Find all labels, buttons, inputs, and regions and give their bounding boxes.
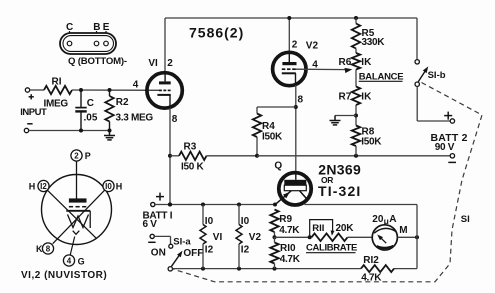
svg-text:R7: R7 <box>339 91 352 102</box>
svg-text:4: 4 <box>133 80 139 91</box>
svg-text:G: G <box>78 256 85 266</box>
svg-text:VI: VI <box>213 232 223 243</box>
svg-text:4.7K: 4.7K <box>279 225 300 236</box>
svg-text:Q: Q <box>274 160 282 171</box>
svg-text:RI: RI <box>52 77 62 88</box>
svg-text:4.7K: 4.7K <box>361 273 382 284</box>
svg-text:C: C <box>87 98 94 109</box>
svg-text:I2: I2 <box>205 245 214 256</box>
svg-text:R3: R3 <box>184 141 197 152</box>
svg-text:IK: IK <box>361 57 372 68</box>
svg-text:μ: μ <box>384 216 389 226</box>
svg-text:CALIBRATE: CALIBRATE <box>306 243 357 254</box>
svg-text:8: 8 <box>298 94 304 105</box>
svg-text:A: A <box>389 214 396 225</box>
svg-text:2: 2 <box>292 40 298 51</box>
svg-text:4: 4 <box>67 256 72 265</box>
svg-text:SI-a: SI-a <box>173 236 191 247</box>
svg-text:R4: R4 <box>262 121 275 132</box>
svg-text:I0: I0 <box>241 216 250 227</box>
svg-text:I50K: I50K <box>361 137 382 148</box>
svg-text:E: E <box>103 22 110 33</box>
svg-text:4.7K: 4.7K <box>280 254 301 265</box>
svg-text:C: C <box>66 22 73 33</box>
svg-text:V2: V2 <box>306 41 319 52</box>
svg-text:SI-b: SI-b <box>428 70 446 81</box>
svg-text:90 V: 90 V <box>435 142 455 153</box>
svg-text:R6: R6 <box>339 57 352 68</box>
svg-text:IK: IK <box>361 91 372 102</box>
svg-text:IMEG: IMEG <box>44 98 69 109</box>
svg-text:RI0: RI0 <box>280 243 296 254</box>
svg-text:VI,2 (NUVISTOR): VI,2 (NUVISTOR) <box>21 270 107 281</box>
svg-text:TI-32I: TI-32I <box>318 183 361 199</box>
svg-text:I2: I2 <box>40 182 47 191</box>
svg-text:VI: VI <box>148 58 158 69</box>
svg-text:Q (BOTTOM)-: Q (BOTTOM)- <box>68 56 127 67</box>
svg-text:330K: 330K <box>362 37 386 48</box>
svg-text:B: B <box>93 22 100 33</box>
svg-text:R9: R9 <box>279 214 292 225</box>
svg-text:2: 2 <box>167 58 173 69</box>
svg-text:8: 8 <box>172 114 178 125</box>
svg-text:SI: SI <box>461 214 470 225</box>
svg-text:2: 2 <box>74 151 79 160</box>
svg-text:.05: .05 <box>84 113 98 124</box>
svg-text:V2: V2 <box>249 232 262 243</box>
svg-text:20K: 20K <box>336 223 355 234</box>
svg-text:I2: I2 <box>241 245 250 256</box>
svg-text:I0: I0 <box>105 182 112 191</box>
svg-text:8: 8 <box>46 244 51 253</box>
svg-text:OFF: OFF <box>183 248 203 259</box>
svg-text:H: H <box>116 182 123 192</box>
svg-text:RI2: RI2 <box>363 255 379 266</box>
svg-text:3.3 MEG: 3.3 MEG <box>116 113 154 124</box>
svg-text:M: M <box>399 225 407 236</box>
svg-text:RII: RII <box>312 223 324 234</box>
svg-text:H: H <box>29 182 36 192</box>
svg-text:I0: I0 <box>205 216 214 227</box>
svg-text:I50K: I50K <box>262 132 283 143</box>
svg-text:P: P <box>85 151 91 161</box>
svg-text:K: K <box>36 244 43 254</box>
svg-text:7586(2): 7586(2) <box>189 25 244 41</box>
svg-text:I50 K: I50 K <box>181 162 204 173</box>
svg-text:20: 20 <box>372 214 384 225</box>
svg-text:R2: R2 <box>116 97 129 108</box>
svg-text:6 V: 6 V <box>143 219 158 230</box>
svg-text:ON: ON <box>151 248 166 259</box>
